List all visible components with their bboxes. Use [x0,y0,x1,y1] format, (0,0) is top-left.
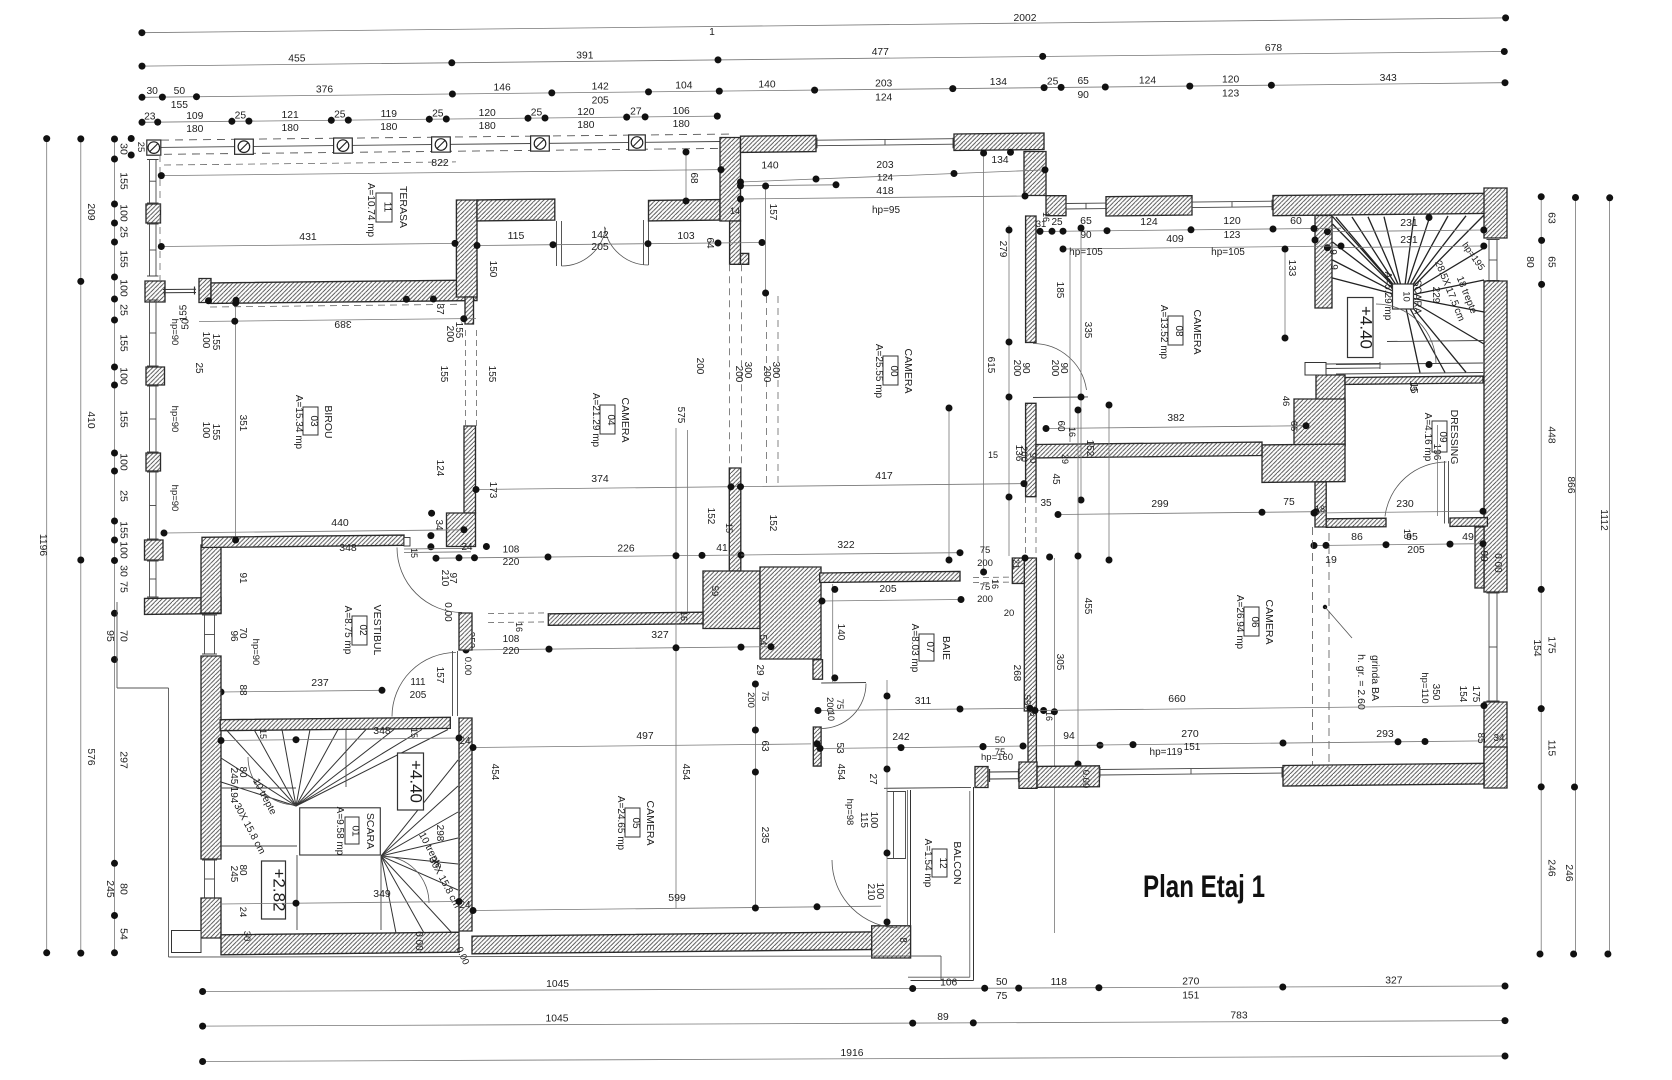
terrace east corner wall [720,138,741,222]
svg-text:220: 220 [503,557,520,568]
left exterior wall blocks and windows [146,204,161,223]
svg-text:34: 34 [433,519,444,531]
svg-text:155: 155 [210,334,221,351]
central wall block camera00 south [703,571,760,629]
svg-text:25: 25 [235,111,247,122]
svg-text:16: 16 [514,622,524,632]
bottom dim row 1045 89 783 [203,1021,1505,1027]
scara box [300,808,381,855]
svg-text:146: 146 [494,82,511,93]
svg-text:75: 75 [980,582,991,593]
svg-text:10: 10 [1401,291,1412,302]
dashed lintel under terrace wall [210,304,460,307]
dashed opening below camera08 west wall [1025,497,1027,556]
svg-text:24: 24 [459,900,471,911]
svg-text:hp=90: hp=90 [169,319,180,346]
left dim col 30 155 100 25 ... 75 95 70 297 245 80 54 [114,139,116,953]
dressing dims [1314,511,1483,513]
camera08 south wall band [1036,442,1262,458]
svg-text:1045: 1045 [546,1014,569,1025]
svg-text:351: 351 [237,415,248,432]
svg-text:75: 75 [759,691,770,702]
svg-text:151: 151 [1182,990,1199,1001]
svg-text:454: 454 [835,764,846,781]
svg-text:231: 231 [1400,217,1418,229]
baie west door leaf and arc [821,682,866,685]
right wall window top [1488,240,1490,281]
svg-text:100: 100 [118,279,130,297]
svg-text:96: 96 [228,630,239,642]
svg-text:100: 100 [118,367,130,385]
svg-text:477: 477 [872,47,889,58]
svg-text:24: 24 [237,907,248,918]
svg-text:100: 100 [868,812,879,829]
svg-text:10: 10 [826,711,836,721]
svg-text:376: 376 [316,84,333,95]
corridor door dashed opening [488,612,548,615]
svg-text:9: 9 [1327,249,1338,255]
camera05 dims 497 599 [473,744,811,748]
svg-text:245: 245 [228,866,239,883]
svg-text:06: 06 [1249,616,1260,628]
scara fan lower flight [381,760,458,856]
svg-text:155: 155 [118,521,130,539]
svg-text:A=1.54 mp: A=1.54 mp [922,839,933,888]
108/220 327 dim line 2 [466,647,771,650]
dressing south wall right piece [1450,518,1487,527]
svg-text:18: 18 [1315,504,1325,514]
svg-text:123: 123 [1222,89,1239,100]
svg-text:410: 410 [85,411,96,428]
camera06 dims [1035,706,1484,711]
svg-text:88: 88 [237,684,248,696]
svg-text:246: 246 [1563,864,1574,881]
svg-text:03: 03 [308,415,319,427]
svg-text:68: 68 [688,172,699,184]
svg-text:180: 180 [380,122,397,133]
svg-text:08: 08 [1173,325,1184,337]
svg-text:12: 12 [937,857,948,869]
svg-text:A=10.74 mp: A=10.74 mp [365,183,376,238]
svg-text:150: 150 [487,261,498,278]
vestibul north wall band [202,535,404,547]
svg-text:A=24.65 mp: A=24.65 mp [615,796,626,851]
balcon railing [910,790,912,926]
north exterior wall camera00 right block [954,133,1044,151]
right wall bump at dressing [1475,527,1484,588]
svg-text:155: 155 [118,334,130,352]
north window 203 [817,139,953,141]
svg-text:866: 866 [1565,476,1576,493]
svg-text:hp=90: hp=90 [169,406,180,433]
svg-text:103: 103 [677,231,694,242]
418 dim line [741,196,1026,199]
svg-text:90: 90 [1080,230,1092,241]
right exterior wall lower block [1484,702,1507,768]
svg-text:hp=105: hp=105 [1211,247,1245,258]
camera08 dim row 31 25 65/90 124 120/123 60 [1037,228,1341,231]
svg-text:hp=95: hp=95 [872,205,901,216]
133 dim [1284,249,1286,338]
svg-text:120: 120 [577,107,594,118]
svg-text:203: 203 [876,160,893,171]
svg-text:60: 60 [1055,420,1066,432]
svg-text:grinda BA: grinda BA [1369,655,1381,701]
svg-text:1916: 1916 [841,1048,864,1059]
svg-text:205: 205 [592,95,609,106]
svg-text:45: 45 [1050,473,1061,485]
birou dims 440 [164,530,464,533]
baie north wall band [820,571,960,582]
stair door jamb and leaf [1305,363,1326,376]
wall tie symbol at terrace corner [163,288,196,290]
svg-text:203: 203 [875,78,892,89]
svg-text:205: 205 [879,584,896,595]
svg-text:270: 270 [1181,728,1199,740]
svg-text:311: 311 [915,696,932,707]
left dim col 209 410 576 [80,139,82,953]
svg-text:49: 49 [1462,531,1474,543]
822 dim line [161,170,721,176]
svg-text:DRESSING: DRESSING [1448,410,1460,465]
svg-text:431: 431 [299,231,317,243]
svg-text:63: 63 [759,740,770,752]
svg-text:200: 200 [977,558,993,569]
svg-text:180: 180 [577,120,594,131]
299 75 dim line [1058,512,1316,515]
svg-text:0.00: 0.00 [1080,770,1091,789]
svg-text:391: 391 [576,50,593,61]
svg-text:14: 14 [730,206,740,216]
svg-text:A=25.55 mp: A=25.55 mp [873,344,884,399]
svg-text:65: 65 [1546,256,1557,268]
svg-text:155: 155 [118,172,130,190]
right wall window mid 350/hp=110 [1488,593,1490,701]
svg-text:04: 04 [605,414,616,426]
svg-text:CAMERA: CAMERA [619,398,631,443]
svg-text:124: 124 [1140,216,1158,228]
scara walk line arcs [248,757,296,805]
svg-text:151: 151 [1184,742,1201,753]
vestibul door opening hinge cap [404,538,410,547]
svg-text:25: 25 [432,109,444,120]
svg-text:115: 115 [508,230,525,242]
svg-text:59: 59 [709,586,720,597]
svg-text:154: 154 [1531,639,1542,656]
svg-text:50: 50 [174,86,186,97]
svg-text:A=8.75 mp: A=8.75 mp [342,606,353,655]
svg-text:100: 100 [118,541,130,559]
svg-text:200: 200 [1018,446,1029,462]
svg-text:305: 305 [1054,654,1065,671]
+4.40 level box at stair [1348,298,1374,358]
svg-text:454: 454 [489,764,500,781]
svg-text:245: 245 [104,880,116,898]
svg-text:65: 65 [1077,76,1089,87]
svg-text:02: 02 [357,624,368,636]
camera04 north wall left part and west wall top [456,200,477,297]
svg-text:155: 155 [438,366,449,383]
svg-text:180: 180 [282,123,299,134]
svg-text:299: 299 [1151,499,1168,510]
svg-text:335: 335 [1082,322,1093,339]
svg-text:BAIE: BAIE [940,636,952,660]
svg-text:SCARA: SCARA [364,813,376,849]
svg-text:106: 106 [673,106,690,117]
scara west window [204,860,206,898]
hol south band left piece with window [975,767,988,788]
svg-text:678: 678 [1265,43,1282,54]
108/220 226 41 dim line [436,555,741,558]
camera00 west wall upper [730,221,741,264]
scara west wall [201,656,221,859]
svg-text:75: 75 [1283,497,1295,508]
svg-text:50: 50 [181,318,192,330]
svg-text:15: 15 [409,548,419,558]
stair west wall / camera08 east wall [1315,216,1332,309]
svg-text:343: 343 [1380,73,1397,84]
dressing south wall band [1326,518,1386,527]
svg-text:70: 70 [118,630,130,642]
svg-text:448: 448 [1546,426,1557,443]
svg-text:108: 108 [503,545,520,556]
svg-text:268: 268 [1011,665,1022,682]
svg-text:A=21.29 mp: A=21.29 mp [590,393,601,448]
svg-text:615: 615 [985,357,996,374]
svg-text:15: 15 [1408,382,1419,394]
svg-text:409: 409 [1166,233,1184,245]
svg-text:230: 230 [1396,498,1414,510]
svg-text:231: 231 [1400,234,1418,246]
french door 142/205 to terrace [556,221,558,266]
stair newel box [1393,284,1414,309]
svg-text:21: 21 [1011,559,1021,569]
svg-text:30: 30 [241,931,252,942]
svg-text:123: 123 [1224,230,1241,241]
svg-text:15: 15 [258,729,268,739]
svg-text:155: 155 [171,100,188,111]
svg-text:BALCON: BALCON [951,841,963,884]
svg-text:hp=160: hp=160 [981,752,1013,763]
svg-text:30: 30 [146,86,158,97]
svg-text:418: 418 [876,185,894,197]
baie west wall [813,660,823,680]
svg-text:30: 30 [118,565,130,577]
balcon door leaf and arc [886,792,888,858]
north wall band camera08: blocks and windows [1046,196,1066,216]
svg-text:205: 205 [410,690,427,701]
svg-text:124: 124 [434,460,445,477]
svg-text:111: 111 [410,677,426,688]
svg-text:175: 175 [1546,636,1557,653]
svg-text:140: 140 [835,624,846,641]
203/124 window dim [741,170,1046,182]
svg-text:29: 29 [1060,454,1070,464]
svg-text:205: 205 [591,241,609,253]
dim row 1 total 2002 [142,18,1506,33]
dressing door leaf and arc [1444,461,1446,524]
svg-text:53: 53 [834,742,845,754]
svg-text:+4.40: +4.40 [407,760,426,803]
svg-text:455: 455 [288,53,305,64]
svg-text:124: 124 [877,173,894,184]
svg-text:95: 95 [104,630,116,642]
svg-text:9: 9 [1328,264,1339,270]
svg-text:279: 279 [997,241,1008,258]
svg-text:124: 124 [875,92,892,103]
svg-text:0.00: 0.00 [1492,553,1503,573]
svg-text:157: 157 [767,204,778,221]
camera08 west wall lower [1026,403,1036,496]
svg-text:80: 80 [118,883,130,895]
svg-text:+4.40: +4.40 [1357,306,1376,349]
svg-text:417: 417 [875,470,893,482]
svg-text:660: 660 [1168,693,1186,705]
scara dims [221,738,459,741]
svg-text:134: 134 [990,77,1007,88]
stair fan [1336,217,1404,296]
svg-text:497: 497 [636,731,653,742]
svg-text:CAMERA: CAMERA [644,801,656,846]
svg-text:327: 327 [651,629,669,641]
svg-text:CAMERA: CAMERA [902,349,914,394]
bottom dim row 1045 106 50 118 270 327 [203,986,1505,992]
svg-text:180: 180 [673,119,690,130]
south wall band scara-camera05 [221,932,459,955]
svg-text:27: 27 [630,107,642,118]
camera05 south wall band [472,932,881,954]
svg-text:142: 142 [592,81,609,92]
camera00 south-west wall pier [729,468,741,571]
svg-text:115: 115 [858,812,869,828]
svg-text:90: 90 [1020,362,1031,374]
stair landing edge lines [1336,363,1483,365]
svg-text:00: 00 [888,365,899,377]
north exterior wall camera00 left block [741,135,817,152]
svg-text:0.00: 0.00 [462,657,473,676]
svg-text:05: 05 [630,817,641,829]
terrace railing with columns [161,134,735,140]
svg-text:152: 152 [705,508,716,525]
svg-text:210: 210 [439,570,450,587]
svg-text:23: 23 [144,112,156,123]
svg-text:34: 34 [1493,733,1505,744]
svg-text:576: 576 [85,748,96,765]
svg-text:85: 85 [1475,732,1486,744]
svg-text:120: 120 [1223,215,1241,227]
right dim col 63 65 448 175 115 246 [1540,197,1542,954]
svg-text:hp=90: hp=90 [169,485,180,512]
svg-text:108: 108 [503,634,520,645]
svg-text:30: 30 [118,143,130,155]
svg-text:63: 63 [1546,212,1557,224]
svg-text:90: 90 [1478,550,1489,562]
baie north door dashed lintel [973,576,1013,578]
svg-text:25: 25 [118,304,130,316]
svg-text:16: 16 [679,611,689,621]
svg-text:VESTIBUL: VESTIBUL [371,605,383,656]
svg-text:173: 173 [487,482,498,499]
svg-text:350: 350 [1430,684,1441,701]
dim row 4: 23 109 25 121 25 119 25 120 25 120 27 106 (over 180 windows) [142,116,717,122]
camera08 door arc [1033,396,1088,399]
corridor south band [548,612,703,625]
north wall step block [1024,152,1046,196]
svg-text:220: 220 [503,646,520,657]
svg-text:37: 37 [434,303,445,315]
svg-text:100: 100 [874,883,885,900]
svg-text:348: 348 [373,725,391,737]
svg-text:15: 15 [988,450,998,460]
vestibul east door arc [397,548,462,613]
svg-text:86: 86 [1351,531,1363,543]
svg-text:822: 822 [431,157,449,169]
svg-text:374: 374 [591,473,609,485]
431 dim line [161,243,455,246]
svg-text:A=9.58 mp: A=9.58 mp [334,807,345,856]
left dashed terrace line [159,155,161,280]
svg-text:100: 100 [200,332,211,349]
vestibul south-west corner wall [145,598,222,615]
svg-text:157: 157 [434,667,445,684]
svg-text:TERASA: TERASA [397,186,409,228]
svg-text:55: 55 [1021,695,1032,706]
svg-text:hp=105: hp=105 [1069,247,1103,258]
camera04 west dashed beam [465,330,467,426]
dim row 3: 30 50 376 146 142 104 140 203 134 25 65 124 120 343 [142,83,1505,98]
svg-text:1045: 1045 [546,979,569,990]
junction block north of dressing [1294,399,1345,445]
svg-text:46: 46 [1280,396,1291,407]
vestibul south-east door leaf and arc [452,651,454,716]
svg-text:41: 41 [716,543,728,554]
322 dim line [741,553,960,555]
svg-text:11: 11 [382,202,393,213]
svg-text:A=15.34 mp: A=15.34 mp [293,395,304,450]
exterior step at scara SW [172,931,202,953]
svg-text:75: 75 [118,581,130,593]
svg-text:297: 297 [118,751,130,769]
svg-text:BIROU: BIROU [322,405,334,438]
svg-text:121: 121 [282,110,299,121]
svg-text:hp=119: hp=119 [1150,747,1183,758]
svg-text:94: 94 [1063,731,1075,742]
svg-text:115: 115 [1546,740,1557,757]
svg-text:SCARA: SCARA [1412,280,1423,315]
svg-text:180: 180 [479,121,496,132]
small notch wall [741,253,749,264]
svg-text:175: 175 [1470,686,1481,703]
svg-text:CAMERA: CAMERA [1263,600,1275,645]
svg-text:90: 90 [1058,362,1069,374]
scara south-west corner block [201,898,221,938]
svg-text:100: 100 [118,204,130,222]
svg-text:16: 16 [1067,427,1077,437]
svg-text:293: 293 [1376,728,1394,740]
level boxes +4.40 +2.82 [398,753,424,810]
svg-text:29: 29 [754,664,765,676]
svg-text:155: 155 [118,410,130,428]
svg-text:h. gr. = 2.60: h. gr. = 2.60 [1355,654,1367,710]
svg-text:A=13.52 mp: A=13.52 mp [1158,305,1169,360]
615 dim line [983,153,985,572]
svg-text:75: 75 [980,545,991,556]
camera06 south wall band [1283,763,1484,786]
svg-text:180: 180 [186,124,203,135]
svg-text:155: 155 [486,366,497,383]
svg-text:599: 599 [668,892,686,904]
south-east corner block [1484,747,1507,788]
